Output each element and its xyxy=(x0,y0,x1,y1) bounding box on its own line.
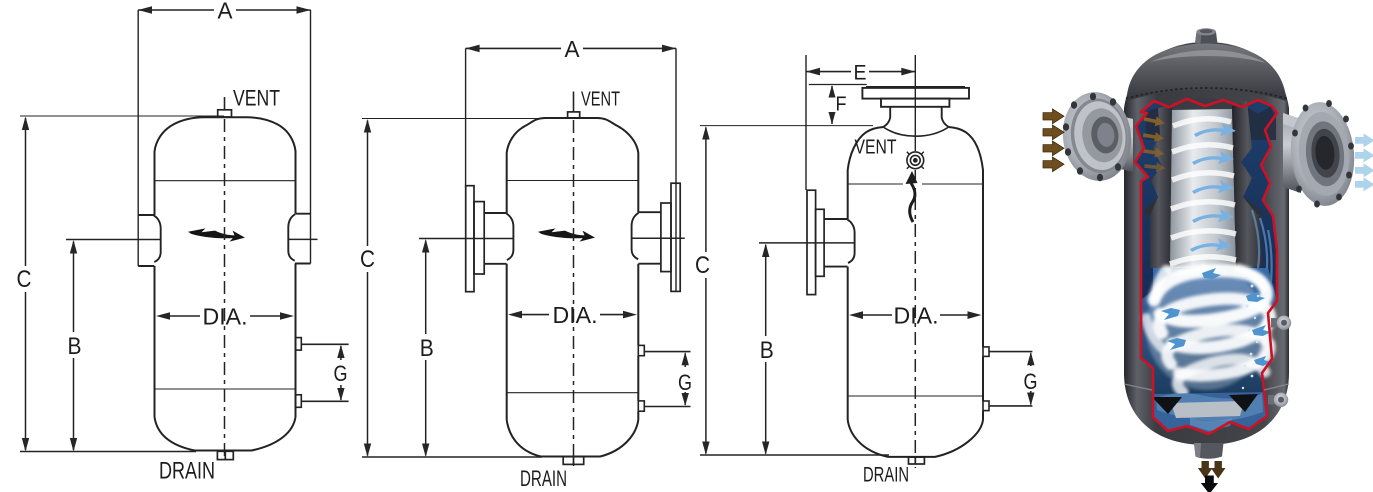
vessel dome shading xyxy=(1127,44,1287,102)
nozzle neck right d2 xyxy=(632,212,661,264)
dim C d3 line xyxy=(702,126,709,455)
gauge tab lower d1 xyxy=(296,395,302,408)
sparkle band xyxy=(1238,277,1260,400)
vent nozzle d2 xyxy=(568,112,580,118)
red cut outline xyxy=(1135,99,1277,434)
vessel right wall d1 xyxy=(295,181,297,417)
flange hub left d3 xyxy=(816,209,825,276)
baseline d1 xyxy=(20,451,196,453)
extension line C top d2 xyxy=(362,118,545,120)
dim DIA d1 xyxy=(156,312,294,320)
tube top cap xyxy=(1168,98,1237,124)
gauge tab upper d2 xyxy=(638,345,644,355)
left flange xyxy=(1058,88,1136,185)
vessel right wall d2 xyxy=(637,181,639,420)
svg-text:C: C xyxy=(695,252,710,279)
vent sight glass d3 xyxy=(907,152,924,169)
drain nozzle d3 xyxy=(909,457,925,464)
tangent line bottom d3 xyxy=(848,395,983,397)
dim A d2 line xyxy=(466,45,676,53)
vessel dome d1 xyxy=(155,117,296,181)
dim G d1 xyxy=(337,345,344,401)
dim E d3 line xyxy=(806,68,915,76)
vessel left wall d1 xyxy=(154,181,156,417)
tangent line bottom d2 xyxy=(507,392,639,394)
gauge line upper d2 xyxy=(644,351,690,353)
extension line C top d1 xyxy=(20,115,224,117)
baffle water zone xyxy=(1152,392,1267,434)
baffle plate xyxy=(1171,401,1244,418)
flow arrow d2 xyxy=(538,228,595,241)
nozzle neck left d2 xyxy=(484,213,513,264)
centerline d2 xyxy=(573,120,575,466)
coupling right centerline tick d1 xyxy=(288,238,318,240)
extension line B d1 xyxy=(66,239,160,241)
svg-text:A: A xyxy=(218,0,234,24)
gauge boss upper right xyxy=(1271,316,1291,330)
svg-text:B: B xyxy=(760,337,774,364)
svg-text:VENT: VENT xyxy=(233,86,280,111)
vessel body silhouette xyxy=(1124,42,1289,445)
extension line B d2 xyxy=(419,238,513,240)
svg-text:DRAIN: DRAIN xyxy=(863,464,909,487)
centerline d1 xyxy=(224,119,226,460)
flange hub right d2 xyxy=(661,203,671,272)
white swirl strokes xyxy=(1146,268,1270,392)
drain nozzle d1 xyxy=(217,451,233,459)
svg-text:B: B xyxy=(68,333,82,360)
vessel bottom head d2 xyxy=(507,420,639,457)
cutaway navy window xyxy=(1135,99,1277,434)
vessel right wall d3 xyxy=(982,184,984,420)
flange disc right d2 xyxy=(671,183,680,291)
dark mounds under top cut xyxy=(1146,102,1276,140)
dim G d3 xyxy=(1027,352,1034,406)
tangent line top d3 xyxy=(848,183,983,185)
extension line A left d2 xyxy=(465,48,467,188)
left nozzle pipe xyxy=(1102,112,1133,172)
centerline solid top d3 xyxy=(914,55,916,151)
tangent line top d2 xyxy=(507,180,639,182)
top flange d3 xyxy=(862,88,969,99)
vessel dome d2 xyxy=(507,118,639,181)
cone flare left xyxy=(1145,197,1158,216)
extension line E left d3 xyxy=(805,55,807,190)
dim G d2 xyxy=(682,352,689,406)
dim C d2 line xyxy=(364,119,371,457)
vent stub d1 xyxy=(224,97,226,110)
dim B d1 line xyxy=(70,240,77,452)
dim B d3 line xyxy=(762,243,769,455)
vessel left wall d3 xyxy=(847,184,849,420)
svg-text:DIA.: DIA. xyxy=(553,302,598,328)
gauge boss lower right xyxy=(1268,393,1288,407)
vessel bottom head d1 xyxy=(155,417,296,451)
dim DIA d2 xyxy=(508,311,637,319)
gauge tab lower d2 xyxy=(638,401,644,411)
svg-text:DIA.: DIA. xyxy=(894,303,939,329)
swirl light wash xyxy=(1146,266,1266,390)
svg-text:DRAIN: DRAIN xyxy=(159,458,215,485)
svg-text:C: C xyxy=(17,266,32,293)
top flange face line d3 xyxy=(866,86,965,88)
coupling left d1 xyxy=(138,215,161,266)
vent stub top xyxy=(1195,28,1218,43)
gauge line lower d1 xyxy=(301,400,348,402)
top flange hub d3 xyxy=(881,99,949,107)
drain stub bottom xyxy=(1194,443,1224,459)
dome weld seam xyxy=(1126,88,1287,99)
vent stub d2 xyxy=(573,92,575,113)
extension line C top d3 xyxy=(700,125,873,127)
dome dip under neck d3 xyxy=(883,127,949,136)
bottom head weld seam xyxy=(1124,384,1289,390)
tangent line bottom d1 xyxy=(155,388,296,390)
interior brown swirl arrows xyxy=(1142,114,1166,173)
baseline d3 xyxy=(700,454,889,456)
gauge line upper d1 xyxy=(301,343,348,345)
inlet arrows brown xyxy=(1043,109,1064,172)
extension line A right d2 xyxy=(675,48,677,291)
dim DIA d3 xyxy=(849,311,982,319)
dim A d1 line xyxy=(138,6,311,14)
svg-text:G: G xyxy=(1024,369,1038,394)
svg-text:A: A xyxy=(565,36,581,62)
steam squiggle arrow d3 xyxy=(906,171,918,222)
extension line F top d3 xyxy=(809,84,867,86)
coupling right centerline tick d2 xyxy=(631,237,685,239)
extension line A left d1 xyxy=(137,10,139,266)
centerline d3 xyxy=(914,170,916,468)
svg-text:DIA.: DIA. xyxy=(203,304,248,330)
right nozzle pipe xyxy=(1283,113,1301,193)
extension line B d3 xyxy=(759,242,854,244)
right water streaks xyxy=(1252,210,1272,292)
gauge tab upper d1 xyxy=(296,338,302,351)
cone flare right xyxy=(1243,197,1266,217)
svg-text:F: F xyxy=(836,94,847,116)
svg-text:G: G xyxy=(334,361,348,386)
svg-text:VENT: VENT xyxy=(855,137,897,159)
svg-text:VENT: VENT xyxy=(581,89,620,111)
barrel spiral arrows xyxy=(1190,123,1236,252)
svg-text:G: G xyxy=(678,370,692,395)
right flange xyxy=(1287,99,1359,208)
dome sheen xyxy=(1150,50,1266,63)
svg-text:E: E xyxy=(854,62,867,85)
tangent line top d1 xyxy=(155,180,296,182)
tube left wall xyxy=(1145,104,1172,268)
bottom swirl zone xyxy=(1141,268,1277,394)
flow arrow d1 xyxy=(188,228,245,241)
coupling right d1 xyxy=(288,214,310,264)
inner tube assembly xyxy=(1145,98,1266,268)
vessel dome d3 xyxy=(848,127,983,184)
dim C d1 line xyxy=(22,117,29,452)
dim B d2 line xyxy=(422,239,429,457)
svg-text:C: C xyxy=(360,246,375,273)
gauge line lower d3 xyxy=(989,405,1032,407)
vessel left wall d2 xyxy=(506,181,508,420)
gauge line lower d2 xyxy=(644,406,690,408)
flange disc left d3 xyxy=(807,190,816,294)
baseline d2 xyxy=(362,456,542,458)
nozzle neck left d3 xyxy=(824,219,855,267)
barrel spiral ribs xyxy=(1170,119,1236,264)
vessel bottom head d3 xyxy=(848,420,983,457)
baffle triangles xyxy=(1152,397,1182,414)
dim F d3 xyxy=(829,85,836,125)
drain nozzle d2 xyxy=(563,457,584,465)
spiral barrel xyxy=(1170,109,1236,268)
gauge line upper d3 xyxy=(989,351,1032,353)
tube right wall xyxy=(1232,101,1263,268)
vent nozzle d1 xyxy=(218,110,232,117)
extension line A right d1 xyxy=(310,10,312,264)
gauge tab upper d3 xyxy=(983,347,989,357)
top nozzle neck d3 xyxy=(883,107,949,127)
svg-text:DRAIN: DRAIN xyxy=(520,466,567,491)
flange disc left d2 xyxy=(466,186,474,292)
swirl blue arrows xyxy=(1161,268,1271,366)
outlet arrows light blue xyxy=(1355,133,1373,191)
gauge tab lower d3 xyxy=(983,401,989,411)
svg-text:B: B xyxy=(420,335,434,362)
flange hub left d2 xyxy=(474,202,484,274)
drain arrows xyxy=(1198,461,1226,492)
